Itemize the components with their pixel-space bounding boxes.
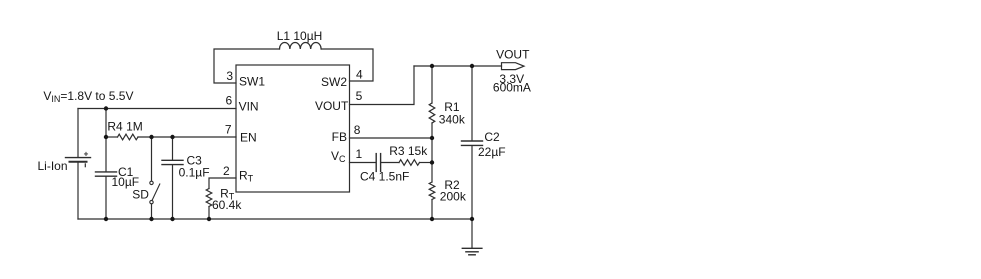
svg-text:22µF: 22µF: [478, 145, 506, 159]
svg-text:SD: SD: [132, 187, 149, 201]
capacitor C2: [471, 66, 473, 141]
svg-text:R3 15k: R3 15k: [389, 144, 428, 158]
wire RT pin 2: [209, 178, 236, 189]
node C2 ground: [470, 217, 474, 221]
capacitor C4: [375, 154, 377, 172]
wire EN rail left segment: [106, 136, 118, 138]
battery BT1 Li-Ion: [66, 157, 91, 159]
node R2 ground: [430, 217, 434, 221]
wire battery positive riser: [77, 109, 79, 158]
resistor R2: [431, 163, 433, 183]
node FB: [430, 136, 434, 140]
node VIN branch: [104, 106, 108, 110]
resistor R4: [118, 134, 139, 140]
svg-text:C2: C2: [484, 130, 500, 144]
wire inductor to SW2 pin 4: [321, 49, 373, 81]
svg-text:6: 6: [226, 94, 233, 108]
svg-text:VIN: VIN: [239, 100, 259, 114]
svg-text:VOUT: VOUT: [496, 47, 530, 61]
wire ground drop: [471, 219, 473, 248]
svg-text:7: 7: [225, 123, 232, 137]
svg-text:0.1µF: 0.1µF: [179, 165, 210, 179]
inductor L1: [280, 43, 322, 50]
svg-text:1: 1: [356, 147, 363, 161]
node RT ground: [207, 217, 211, 221]
wire FB node to R3 node: [431, 138, 433, 163]
capacitor C1: [105, 137, 107, 172]
wire VOUT top rail: [414, 65, 502, 67]
resistor R1: [431, 66, 433, 103]
svg-text:C4 1.5nF: C4 1.5nF: [360, 169, 409, 183]
node C3 ground: [170, 217, 174, 221]
wire battery negative: [77, 163, 79, 220]
svg-text:600mA: 600mA: [493, 81, 531, 95]
svg-text:60.4k: 60.4k: [212, 198, 242, 212]
wire VIN rail: [78, 108, 236, 110]
wire SW1 pin 3 to inductor loop left: [214, 49, 280, 83]
svg-text:R4 1M: R4 1M: [107, 119, 142, 133]
node SD top: [149, 135, 153, 139]
svg-text:EN: EN: [240, 131, 257, 145]
svg-text:5: 5: [356, 89, 363, 103]
svg-text:3: 3: [226, 69, 233, 83]
svg-text:340k: 340k: [439, 113, 466, 127]
node SD ground: [149, 217, 153, 221]
node EN R4 left: [104, 135, 108, 139]
output flag VOUT: [502, 63, 525, 70]
svg-text:2: 2: [223, 164, 230, 178]
wire FB pin 8: [350, 137, 433, 139]
svg-text:SW2: SW2: [321, 75, 347, 89]
wire VOUT pin 5 riser: [350, 66, 415, 105]
resistor RT: [206, 189, 212, 207]
svg-text:4: 4: [356, 68, 363, 82]
IC U1 body: [236, 65, 350, 192]
resistor R3: [399, 160, 420, 166]
svg-text:L1 10µH: L1 10µH: [277, 29, 323, 43]
node C3 top: [170, 135, 174, 139]
wire VIN branch to EN rail: [105, 109, 107, 138]
svg-text:FB: FB: [332, 130, 347, 144]
svg-text:200k: 200k: [440, 190, 467, 204]
svg-text:Li-Ion: Li-Ion: [38, 159, 68, 173]
capacitor C3: [172, 137, 174, 160]
node C1 ground: [104, 217, 108, 221]
svg-text:SW1: SW1: [239, 75, 265, 89]
switch SD: [151, 137, 153, 181]
wire R3 to FB node: [420, 162, 433, 164]
wire EN rail to pin 7: [138, 136, 236, 138]
node C2 top: [470, 64, 474, 68]
wire RT to ground rail: [208, 207, 210, 220]
svg-text:8: 8: [354, 123, 361, 137]
wire ground bottom rail: [78, 218, 472, 220]
ground: [462, 247, 482, 249]
svg-text:VOUT: VOUT: [315, 99, 349, 113]
node R3 FB junction: [430, 160, 434, 164]
node R1 top: [430, 64, 434, 68]
wire VC pin 1: [350, 162, 376, 164]
